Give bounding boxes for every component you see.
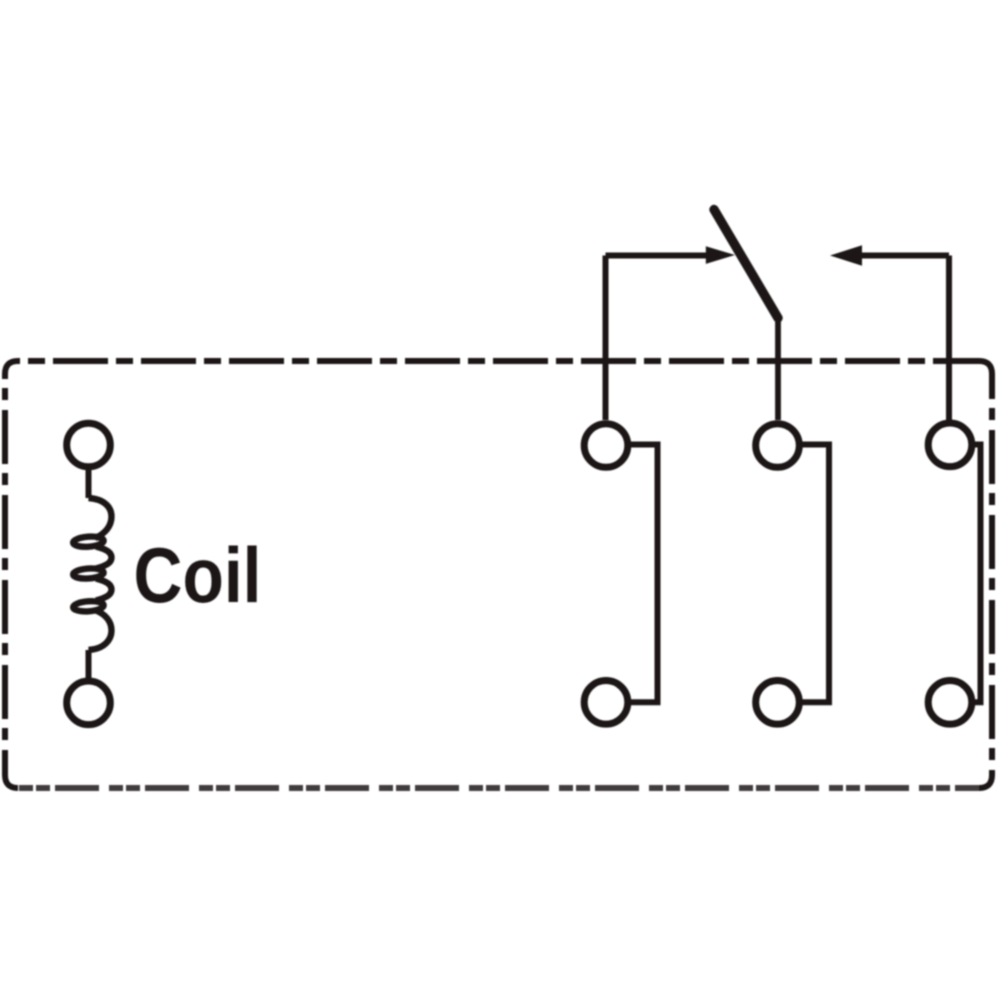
wire pole1 vertical riser	[603, 256, 609, 421]
wire pole1 pair link	[628, 445, 658, 703]
relay enclosure dash-dot border left	[2, 374, 8, 775]
pole3 lower terminal circle	[928, 681, 972, 725]
pole 1 common terminal circle	[584, 424, 628, 468]
svg-text:Coil: Coil	[134, 531, 262, 619]
relay enclosure dash-dot border top	[18, 358, 979, 364]
relay enclosure border: top-left corner	[5, 361, 18, 374]
arrowhead left-pointing	[830, 245, 862, 265]
relay enclosure dash-dot-dot border bottom	[18, 785, 979, 791]
wire pole3 arrow line	[862, 253, 949, 259]
switch lever	[714, 210, 778, 319]
relay enclosure dash-dot border right	[989, 374, 995, 775]
wire coil top stub	[86, 468, 92, 498]
relay enclosure border: bottom-left corner	[5, 775, 18, 788]
relay enclosure border: top-right corner	[979, 361, 992, 374]
relay enclosure border: bottom-right corner	[979, 775, 992, 788]
coil terminal circle top	[67, 423, 111, 467]
arrowhead right-pointing	[706, 246, 735, 264]
pole 3 common terminal circle	[928, 423, 972, 467]
coil terminal circle bottom	[67, 681, 111, 725]
pole1 lower terminal circle	[584, 681, 628, 725]
wire pole1 arrow line	[606, 253, 707, 259]
wire lever to pole2 circle	[775, 315, 781, 420]
pole 2 common terminal circle	[756, 424, 800, 468]
wire coil bottom stub	[86, 650, 92, 680]
coil winding L1	[73, 498, 112, 650]
wire pole3 vertical riser	[946, 256, 952, 421]
wire pole3 pair link	[972, 445, 981, 703]
pole2 lower terminal circle	[756, 681, 800, 725]
wire pole2 pair link	[800, 445, 830, 703]
